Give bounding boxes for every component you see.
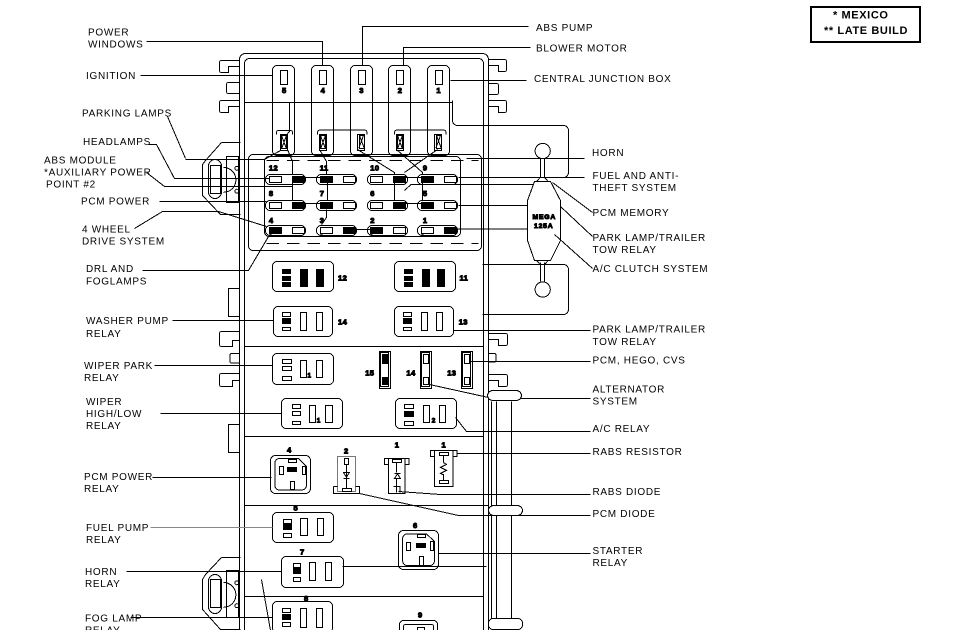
label starter relay [593, 546, 644, 569]
label park lamp trailer 1 [593, 233, 706, 256]
upper connector terminal circles [235, 166, 239, 193]
svg-text:5: 5 [282, 86, 287, 95]
cartridge fuse slot4 [320, 135, 327, 151]
fuse 13 number [447, 369, 456, 378]
svg-text:11: 11 [320, 163, 329, 172]
pcm power relay 4 [271, 456, 311, 494]
bracket around slots 4-3 cartridge fuses [318, 130, 368, 135]
wire starter relay leader [439, 553, 591, 555]
wire alternator leader [521, 398, 591, 400]
svg-text:WINDOWS: WINDOWS [88, 40, 143, 51]
wire link fuse3-2 [355, 229, 371, 231]
left wall tab 4 [220, 332, 240, 347]
label pcm memory [593, 208, 670, 219]
svg-text:2: 2 [344, 446, 349, 455]
central junction box inner wall [245, 59, 484, 630]
mini fuse 9 [418, 175, 458, 185]
wire fuse14 alternator diagonal [430, 385, 489, 398]
section divider line 5 [245, 596, 484, 598]
lower terminal circle [535, 282, 550, 297]
lower connector octagon [203, 558, 241, 630]
wire washer pump leader [173, 320, 274, 322]
wire slot5 to fuse12 [288, 150, 293, 175]
mini fuse 4 [266, 226, 306, 237]
label wiper high-low relay [86, 397, 142, 432]
wire horn label [467, 158, 585, 160]
svg-text:1: 1 [436, 86, 441, 95]
label ac relay [593, 424, 651, 435]
rabs diode 2 [338, 457, 356, 492]
wire fuse13 pcm hego leader [471, 361, 591, 363]
svg-text:7: 7 [320, 189, 325, 198]
svg-text:RELAY: RELAY [84, 484, 120, 495]
fuse 10 number [370, 163, 379, 172]
svg-text:PARKING LAMPS: PARKING LAMPS [82, 109, 172, 120]
pcm diode 1 [384, 459, 409, 494]
lower connector arc [224, 583, 236, 608]
wire bus drop to slot5 cartridge [287, 103, 290, 135]
inner wall box around fuse panel [249, 155, 482, 251]
label wiper park relay [84, 361, 153, 384]
fog lamp relay 8 [273, 602, 333, 630]
mini fuse 7 [317, 201, 357, 211]
wire fuse12 to fuse8 [292, 182, 294, 201]
svg-text:9: 9 [423, 163, 428, 172]
relay 14 number [338, 318, 348, 327]
wire slot2 to fuse9 [397, 150, 423, 175]
relay 9 number [418, 611, 423, 620]
svg-text:TOW RELAY: TOW RELAY [593, 245, 657, 256]
dashed separator bottom [267, 243, 479, 245]
relay 11 [395, 262, 456, 292]
fuse 15 number [365, 369, 374, 378]
svg-text:13: 13 [459, 318, 468, 327]
fuse 3 number [320, 216, 325, 225]
svg-text:2: 2 [398, 86, 403, 95]
svg-text:RELAY: RELAY [84, 373, 120, 384]
slot 2 number [398, 86, 403, 95]
section divider line 2 [245, 436, 484, 438]
label fog lamp relay [85, 614, 142, 630]
svg-text:CENTRAL JUNCTION BOX: CENTRAL JUNCTION BOX [534, 74, 672, 85]
wire fuel anti-theft leader [546, 177, 585, 179]
svg-text:1: 1 [308, 373, 312, 380]
relay 11 number [460, 274, 469, 283]
svg-text:MEGA: MEGA [533, 214, 557, 221]
svg-text:RELAY: RELAY [86, 421, 122, 432]
mini fuse 8 [266, 201, 306, 211]
mini fuse 10 [368, 175, 408, 185]
fuse 9 number [423, 163, 428, 172]
bracket around slots 2-1 cartridge fuses [395, 130, 447, 135]
right stand legs [492, 402, 512, 619]
fuse 5 number [423, 189, 428, 198]
relay 13 [395, 307, 454, 337]
svg-text:WIPER: WIPER [86, 397, 122, 408]
mini fuse 12 [266, 175, 306, 185]
bracket around slot 5 cartridge fuse [277, 131, 293, 135]
label ignition [86, 71, 136, 82]
starter relay number [413, 521, 418, 530]
svg-text:1: 1 [317, 418, 321, 425]
pcm power relay number [287, 446, 292, 455]
left wall tab 6 [220, 374, 240, 387]
svg-text:FOGLAMPS: FOGLAMPS [86, 277, 147, 288]
svg-text:SYSTEM: SYSTEM [593, 397, 638, 408]
svg-text:WASHER PUMP: WASHER PUMP [86, 316, 169, 327]
label pcm diode [593, 509, 656, 520]
fuse 7 number [320, 189, 325, 198]
a/c relay 2 [396, 399, 457, 429]
upper connector octagon [203, 143, 241, 215]
svg-text:* MEXICO: * MEXICO [833, 10, 889, 22]
wire fuse5 exit right [459, 205, 528, 207]
svg-text:PARK LAMP/TRAILER: PARK LAMP/TRAILER [593, 325, 706, 336]
label 4 wheel drive [82, 225, 165, 248]
svg-text:9: 9 [418, 611, 423, 620]
relay 13 number [459, 318, 468, 327]
mexico note text [833, 10, 889, 22]
svg-text:POWER: POWER [88, 28, 129, 39]
svg-text:THEFT SYSTEM: THEFT SYSTEM [593, 183, 677, 194]
label blower motor [536, 44, 628, 55]
wire pcm power leader [160, 201, 267, 203]
wire central junction box leader [451, 80, 527, 82]
svg-text:11: 11 [460, 274, 469, 283]
pcm diode 1 number [395, 441, 400, 450]
mini fuse 15 [380, 352, 391, 389]
label rabs diode [593, 487, 662, 498]
section divider line 3 [245, 505, 489, 507]
label horn [592, 148, 624, 159]
cartridge fuse slot1 [435, 135, 442, 151]
wire abs module leader [147, 173, 293, 187]
a/c relay pin number [432, 418, 436, 425]
relay 12 number [338, 274, 347, 283]
mini fuse 2 [368, 226, 408, 237]
fuse 4 number [269, 216, 274, 225]
horn relay 7 [282, 557, 344, 588]
wire fuel pump relay leader [151, 527, 273, 529]
upper connector arc [224, 168, 236, 193]
svg-text:8: 8 [269, 189, 274, 198]
wire pcm diode leader [360, 494, 591, 516]
svg-text:DRL AND: DRL AND [86, 264, 134, 275]
label central junction box [534, 74, 672, 85]
fuse panel box [265, 157, 461, 237]
lower connector rect [211, 580, 221, 608]
fuse 6 number [370, 189, 375, 198]
svg-text:5: 5 [423, 189, 428, 198]
section divider line 1 [245, 346, 484, 348]
lower connector stadium [209, 575, 222, 614]
right stand middle bar [489, 506, 523, 516]
late build note text [824, 25, 908, 37]
wire ignition leader [141, 75, 273, 77]
wire link fuse6-5 [406, 203, 422, 205]
left wall rect tab lower [229, 425, 240, 453]
right wall tab 1 [489, 60, 507, 72]
svg-text:1: 1 [442, 441, 447, 450]
svg-text:RELAY: RELAY [86, 329, 122, 340]
svg-text:4: 4 [269, 216, 274, 225]
right stand bottom bar [489, 619, 523, 630]
label rabs resistor [593, 447, 683, 458]
mega fuse label MEGA [533, 214, 557, 221]
wire fuse11 to fuse7 [327, 182, 329, 201]
right wall tab 5 [489, 354, 497, 363]
right stand upper bar [488, 391, 522, 401]
wire fuse10 to fuse6 [394, 182, 396, 201]
svg-text:HORN: HORN [592, 148, 624, 159]
mini fuse 5 [418, 201, 458, 211]
wiper high-low relay [282, 399, 343, 429]
wire ac clutch leader [555, 235, 593, 269]
svg-text:7: 7 [300, 548, 305, 557]
svg-text:FOG LAMP: FOG LAMP [85, 614, 142, 625]
mini fuse 3 [317, 226, 357, 237]
wiper park relay pin number [308, 373, 312, 380]
svg-text:1: 1 [395, 441, 400, 450]
svg-text:RELAY: RELAY [85, 579, 121, 590]
svg-text:PARK LAMP/TRAILER: PARK LAMP/TRAILER [593, 233, 706, 244]
wire fuse1 exit right [457, 228, 528, 230]
cartridge fuse slot5 [281, 135, 288, 151]
wire pcm memory leader [553, 183, 593, 213]
svg-text:RABS DIODE: RABS DIODE [593, 487, 662, 498]
washer pump relay 14 [274, 307, 333, 337]
dashed separator top [267, 160, 479, 162]
mini fuse 11 [317, 175, 357, 185]
mini fuse 14 [421, 352, 432, 389]
horn terminal circle [535, 143, 550, 158]
fuel pump relay number [294, 504, 299, 513]
mega fuse upper stem [537, 159, 549, 182]
svg-text:12: 12 [269, 163, 278, 172]
wire parking lamps leader [168, 117, 186, 159]
mega fuse 125A body [528, 182, 561, 261]
wire park lamp trailer leader 1 [561, 207, 593, 237]
starter relay 6 [399, 531, 439, 570]
maxi fuse slot 1 [428, 66, 450, 156]
wire fuse7 to fuse3 [322, 210, 327, 225]
left wall tab 5 [230, 354, 240, 364]
wire abs pump leader [363, 27, 529, 66]
central junction box outer wall [240, 54, 489, 630]
rabs resistor 1 number [442, 441, 447, 450]
wire horn relay leader [127, 571, 282, 573]
label fuel pump relay [86, 523, 149, 546]
mega fuse lower stem [537, 261, 549, 282]
svg-text:6: 6 [370, 189, 375, 198]
wire link fuse10-9 [406, 177, 422, 179]
wire pcm power relay leader [153, 477, 272, 479]
slot 4 number [321, 86, 326, 95]
label ac clutch system [593, 264, 709, 275]
left wall tab 1 [220, 61, 240, 73]
wire blower motor leader [404, 48, 531, 66]
right wall tab 4 [489, 334, 508, 346]
svg-text:5: 5 [294, 504, 299, 513]
wire relay13 park lamp trailer leader 2 [454, 330, 591, 332]
svg-text:RELAY: RELAY [85, 626, 121, 630]
svg-text:1: 1 [423, 216, 428, 225]
label fuel and anti-theft [593, 171, 680, 194]
svg-text:POINT #2: POINT #2 [46, 180, 96, 191]
svg-text:*AUXILIARY POWER: *AUXILIARY POWER [44, 168, 152, 179]
relay 12 [273, 262, 334, 292]
svg-text:4 WHEEL: 4 WHEEL [82, 225, 131, 236]
horn relay number [300, 548, 305, 557]
wire power windows leader [147, 42, 323, 66]
svg-text:FUEL PUMP: FUEL PUMP [86, 523, 149, 534]
label horn relay [85, 567, 121, 590]
wiper park relay [273, 354, 334, 385]
svg-text:WIPER PARK: WIPER PARK [84, 361, 153, 372]
slot 3 number [359, 86, 364, 95]
wire drl foglamps leader [143, 237, 269, 271]
svg-text:RELAY: RELAY [593, 558, 629, 569]
label park lamp trailer 2 [593, 325, 706, 349]
upper connector keeper [227, 157, 239, 203]
wire fuse9 to fuse5 [422, 182, 424, 201]
svg-text:HORN: HORN [85, 567, 117, 578]
lower connector terminal circles [235, 581, 239, 608]
svg-text:PCM DIODE: PCM DIODE [593, 509, 656, 520]
mini fuse 6 [368, 201, 408, 211]
label washer pump relay [86, 316, 169, 340]
rabs diode 2 number [344, 446, 349, 455]
svg-text:4: 4 [287, 446, 292, 455]
wire slot3 to fuse10 [358, 150, 395, 175]
label pcm hego cvs [593, 356, 686, 367]
label abs pump [536, 23, 593, 34]
fuse 2 number [370, 216, 375, 225]
svg-text:HIGH/LOW: HIGH/LOW [86, 409, 142, 420]
wire bus y102 [245, 102, 453, 104]
mini fuse 13 [462, 352, 473, 389]
svg-text:PCM MEMORY: PCM MEMORY [593, 208, 670, 219]
section divider line 4 [343, 566, 487, 568]
svg-text:A/C CLUTCH SYSTEM: A/C CLUTCH SYSTEM [593, 264, 709, 275]
svg-text:STARTER: STARTER [593, 546, 644, 557]
rabs resistor 1 [431, 451, 458, 487]
fuse 11 number [320, 163, 329, 172]
wire wiper high-low leader [161, 413, 282, 415]
svg-text:TOW RELAY: TOW RELAY [593, 337, 657, 348]
right wall tab 6 [489, 375, 508, 387]
wire parking bus to slot5 [186, 151, 281, 160]
cartridge fuse slot3 [358, 135, 365, 151]
left wall rect tab upper [229, 289, 240, 317]
svg-text:A/C RELAY: A/C RELAY [593, 424, 651, 435]
svg-text:FUEL AND ANTI-: FUEL AND ANTI- [593, 171, 680, 182]
mega fuse label 125A [534, 223, 553, 230]
wire slot4 to fuse11 [320, 150, 327, 175]
svg-text:6: 6 [413, 521, 418, 530]
svg-text:ABS PUMP: ABS PUMP [536, 23, 593, 34]
svg-text:ABS MODULE: ABS MODULE [44, 156, 117, 167]
wire fuse9 exit right [459, 177, 541, 179]
wire rabs resistor leader [457, 453, 591, 455]
svg-text:2: 2 [432, 418, 436, 425]
relay 9 [400, 621, 438, 630]
label drl and foglamps [86, 264, 147, 288]
svg-text:12: 12 [338, 274, 347, 283]
svg-text:14: 14 [406, 369, 416, 378]
fuse 1 number [423, 216, 428, 225]
svg-text:4: 4 [321, 86, 326, 95]
lower connector keeper [227, 571, 239, 618]
svg-text:10: 10 [370, 163, 379, 172]
fog lamp relay number [304, 594, 309, 603]
right wall tab 2 [489, 84, 499, 95]
left wall tab 3 [220, 101, 240, 113]
wire 4 wheel drive leader [135, 212, 267, 229]
mini fuse 1 [418, 226, 458, 237]
upper connector stadium [209, 160, 222, 199]
svg-text:PCM POWER: PCM POWER [84, 472, 153, 483]
svg-text:BLOWER MOTOR: BLOWER MOTOR [536, 44, 628, 55]
svg-text:RABS RESISTOR: RABS RESISTOR [593, 447, 683, 458]
upper connector rect [211, 166, 221, 194]
svg-text:ALTERNATOR: ALTERNATOR [593, 385, 666, 396]
svg-text:PCM, HEGO, CVS: PCM, HEGO, CVS [593, 356, 686, 367]
label pcm power relay [84, 472, 153, 495]
wire rabs diode leader [399, 492, 591, 495]
svg-text:IGNITION: IGNITION [86, 71, 136, 82]
left wall tab 2 [227, 83, 240, 94]
svg-text:3: 3 [359, 86, 364, 95]
svg-text:PCM POWER: PCM POWER [81, 197, 150, 208]
fuse 12 number [269, 163, 278, 172]
svg-text:** LATE BUILD: ** LATE BUILD [824, 25, 908, 37]
mega fuse upper housing [453, 101, 569, 178]
label pcm power [81, 197, 150, 208]
svg-text:13: 13 [447, 369, 456, 378]
svg-text:15: 15 [365, 369, 374, 378]
mexico late build note box [811, 7, 920, 42]
label abs module [44, 156, 152, 191]
wire link fuse12-11 [305, 177, 321, 179]
wire ac relay leader [456, 418, 591, 432]
svg-text:DRIVE SYSTEM: DRIVE SYSTEM [82, 237, 165, 248]
slot 1 number [436, 86, 441, 95]
maxi fuse slot 2 [389, 66, 411, 156]
wire link fuse8-7 [305, 203, 321, 205]
fuse 8 number [269, 189, 274, 198]
fuse 14 number [406, 369, 416, 378]
svg-text:RELAY: RELAY [86, 535, 122, 546]
maxi fuse slot 3 [351, 66, 373, 156]
wire fog lamp relay leader [131, 617, 273, 619]
maxi fuse slot 5 [273, 66, 295, 156]
maxi fuse slot 4 [312, 66, 334, 156]
wire lower connector diagonal [262, 580, 271, 630]
label power windows [88, 28, 143, 51]
label headlamps [83, 137, 151, 148]
wire headlamps leader [149, 145, 270, 179]
right wall tab 3 [489, 101, 507, 113]
wire fuse panel to mega fuse [405, 185, 534, 191]
wire wiper park leader [155, 365, 273, 367]
slot 5 number [282, 86, 287, 95]
wire slot1 to fuse10 [405, 150, 438, 173]
mega fuse lower housing [483, 265, 569, 315]
wiper high-low relay pin number [317, 418, 321, 425]
fuel pump relay 5 [273, 513, 334, 543]
label alternator system [593, 385, 666, 408]
